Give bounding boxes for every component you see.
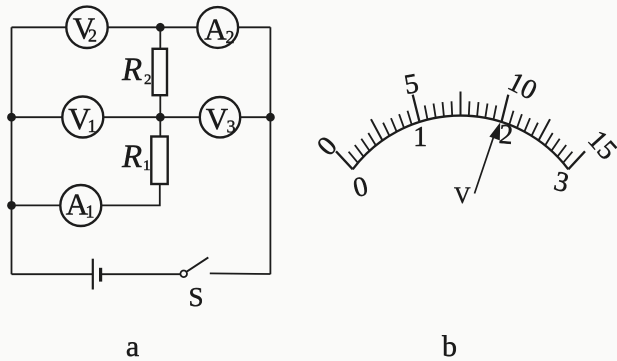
wire middle column R2 to node	[159, 95, 161, 117]
resistor R1 label	[121, 139, 151, 175]
svg-text:0: 0	[311, 131, 343, 162]
wire middle row	[12, 116, 271, 118]
node center	[156, 113, 165, 122]
svg-text:5: 5	[402, 68, 421, 101]
svg-text:15: 15	[581, 125, 617, 167]
resistor R2 label	[121, 52, 152, 88]
svg-text:10: 10	[503, 66, 542, 106]
svg-text:3: 3	[551, 166, 572, 199]
wire bottom left to battery	[12, 273, 93, 275]
svg-text:2: 2	[88, 26, 97, 46]
svg-text:1: 1	[86, 202, 95, 222]
svg-text:0: 0	[350, 171, 371, 204]
wire right edge	[269, 27, 271, 274]
wire R1 bottom to A1	[101, 184, 160, 205]
ammeter A2	[197, 7, 238, 48]
meter scale arc	[353, 116, 569, 170]
node left A1 row	[7, 201, 16, 210]
node left middle	[7, 113, 16, 122]
svg-text:a: a	[126, 330, 139, 361]
wire middle column node to R1	[159, 117, 161, 136]
meter scale ticks	[336, 92, 585, 170]
svg-text:A: A	[204, 11, 227, 46]
wire top row	[12, 26, 271, 28]
ammeter A1	[60, 185, 101, 226]
wire middle column top	[159, 27, 161, 49]
switch S	[180, 257, 208, 277]
battery long plate	[92, 259, 94, 290]
wire left edge	[11, 27, 13, 274]
svg-text:V: V	[206, 101, 229, 136]
svg-text:3: 3	[227, 117, 236, 137]
voltmeter V3	[200, 97, 240, 137]
wire A1 row left	[12, 204, 61, 206]
voltmeter V2	[66, 7, 107, 48]
resistor R1	[151, 137, 167, 185]
svg-text:V: V	[454, 183, 471, 208]
svg-text:S: S	[188, 282, 203, 312]
node top middle	[156, 23, 165, 32]
svg-text:R: R	[121, 52, 142, 88]
voltmeter V1	[62, 97, 103, 138]
svg-text:2: 2	[144, 72, 152, 88]
svg-text:b: b	[442, 330, 457, 361]
svg-text:2: 2	[226, 27, 235, 47]
wire switch to bottom right	[210, 272, 271, 275]
wire battery to switch	[101, 273, 181, 275]
svg-text:1: 1	[413, 122, 427, 153]
svg-text:1: 1	[143, 158, 151, 174]
needle	[475, 124, 500, 194]
node right middle	[266, 113, 275, 122]
resistor R2	[153, 49, 167, 95]
battery short plate	[99, 268, 102, 282]
svg-text:R: R	[121, 139, 142, 175]
svg-text:1: 1	[88, 116, 97, 136]
